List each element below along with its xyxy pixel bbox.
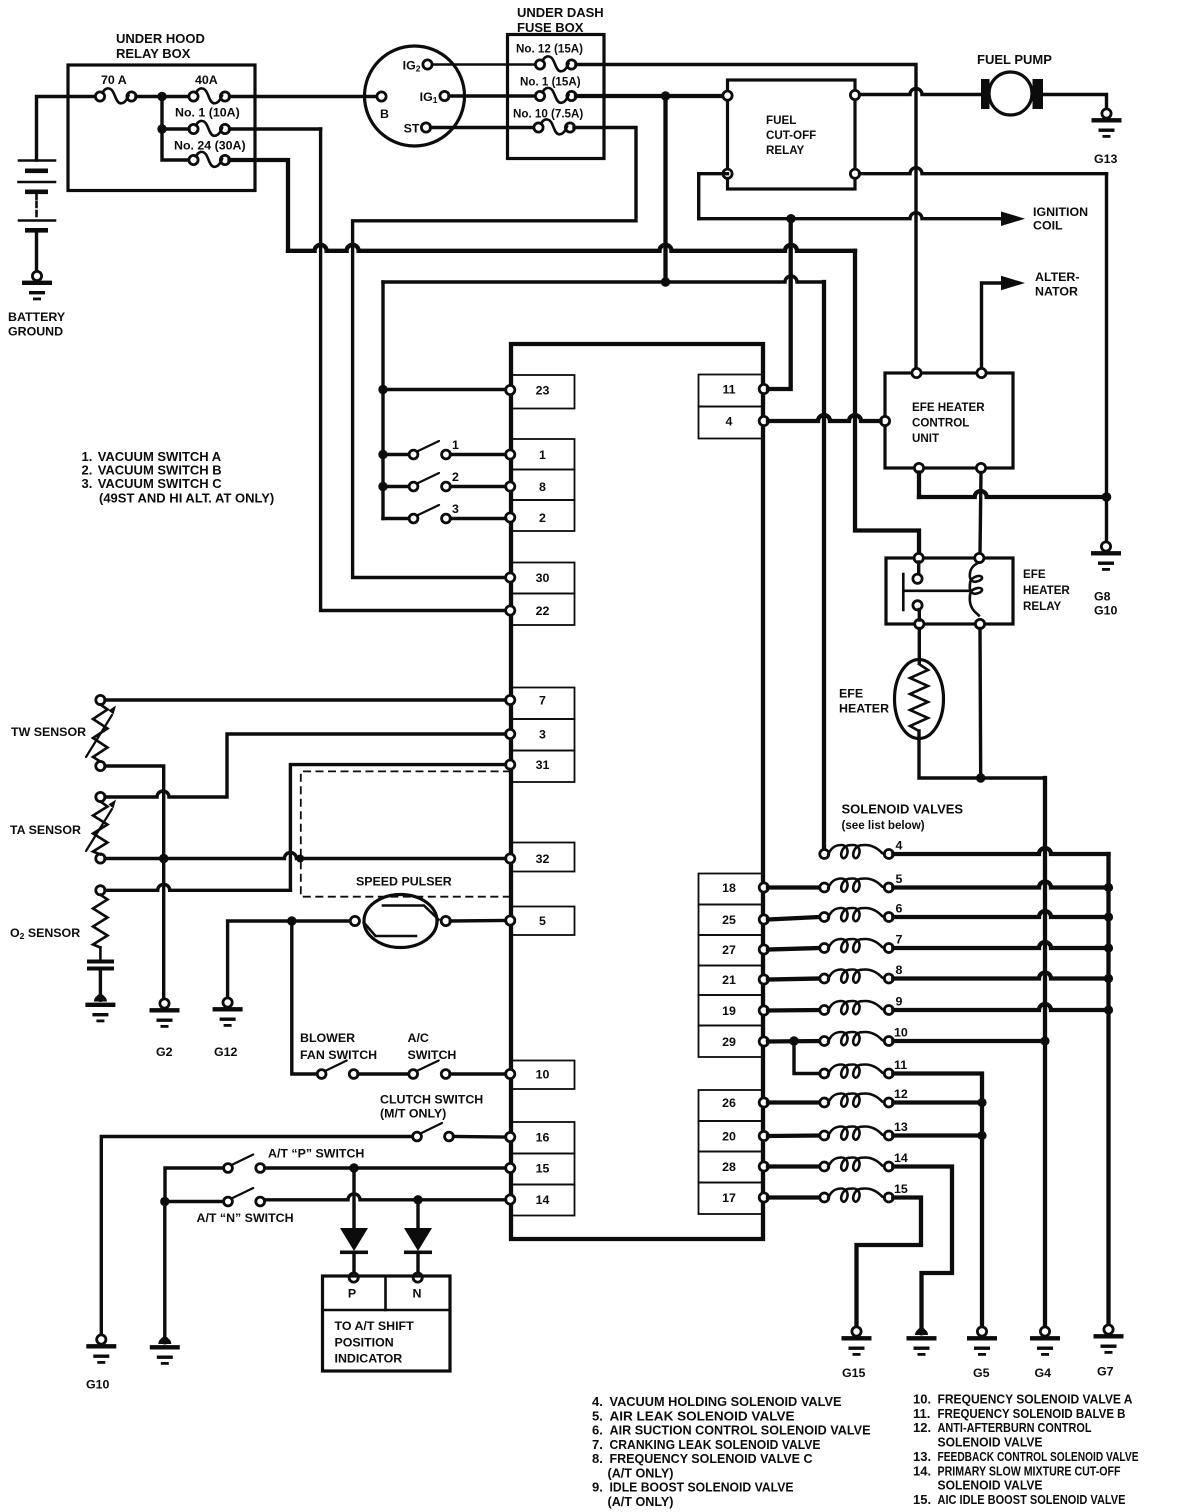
node junction solenoid 10 bus — [1040, 1036, 1049, 1045]
svg-text:9: 9 — [896, 995, 903, 1009]
solenoid valve coil 8 — [820, 970, 894, 984]
svg-text:(A/T ONLY): (A/T ONLY) — [608, 1465, 674, 1480]
wire vacuum switch 3 to cell 2 — [451, 517, 506, 520]
ECU pin cell 10 — [506, 1061, 575, 1090]
svg-text:7: 7 — [896, 933, 903, 947]
node junction ignition coil line / cell 11 riser — [786, 214, 795, 223]
svg-text:4: 4 — [726, 415, 733, 429]
svg-text:CRANKING LEAK SOLENOID VALVE: CRANKING LEAK SOLENOID VALVE — [610, 1437, 821, 1452]
svg-text:19: 19 — [722, 1004, 736, 1018]
svg-text:3: 3 — [452, 502, 459, 516]
node junction solenoid 7 bus — [1104, 943, 1113, 952]
wire to vacuum switch 1 — [383, 453, 409, 456]
svg-text:1: 1 — [539, 448, 546, 462]
ECU pin cell 25 — [699, 905, 769, 936]
ECU pin cell 5 — [506, 907, 575, 936]
svg-text:5: 5 — [896, 872, 903, 886]
svg-text:(see list below): (see list below) — [842, 819, 925, 832]
svg-text:UNIT: UNIT — [912, 432, 939, 445]
wire No.1 junction down to solenoid feed line — [663, 96, 667, 282]
O2 sensor — [87, 886, 114, 995]
node junction sensor ground bus — [287, 916, 296, 925]
dashed option boundary — [301, 771, 511, 896]
solenoid valve coil 5 — [820, 879, 894, 893]
svg-text:EFE: EFE — [839, 687, 863, 701]
ground G15 — [842, 1327, 872, 1356]
svg-text:(A/T ONLY): (A/T ONLY) — [608, 1494, 674, 1509]
terminal EFE relay bottom left — [915, 619, 924, 628]
node junction solenoid 6 bus — [1104, 912, 1113, 921]
svg-text:BATTERY: BATTERY — [8, 310, 66, 324]
terminal EFE relay top left — [914, 553, 923, 562]
wire cell 28 to solenoid 14 — [768, 1164, 820, 1168]
wire 40A output to ignition switch B — [230, 95, 378, 98]
wire A/C switch to cell 10 — [450, 1072, 506, 1075]
svg-text:15: 15 — [536, 1162, 550, 1176]
svg-text:A/C: A/C — [408, 1031, 429, 1045]
svg-text:7: 7 — [539, 694, 546, 708]
wire junction to fuse No.1 10A — [162, 127, 189, 130]
svg-text:8.: 8. — [592, 1451, 603, 1466]
svg-text:PRIMARY SLOW MIXTURE CUT-OFF: PRIMARY SLOW MIXTURE CUT-OFF — [938, 1463, 1121, 1478]
solenoid valve coil 6 — [820, 908, 894, 922]
ECU pin cell 3 — [506, 719, 575, 751]
wire right bus to ground G7 — [1106, 854, 1110, 1325]
switch clutch switch — [413, 1123, 454, 1141]
svg-text:FUEL PUMP: FUEL PUMP — [977, 52, 1052, 67]
wire cell 17 to solenoid 15 — [768, 1195, 820, 1199]
svg-text:FAN SWITCH: FAN SWITCH — [300, 1048, 377, 1062]
svg-text:8: 8 — [539, 480, 546, 494]
wire cell 3 to TA sensor — [105, 734, 506, 797]
wire No.1 10A down to cell 22 — [321, 129, 505, 611]
svg-text:SOLENOID VALVE: SOLENOID VALVE — [938, 1478, 1043, 1493]
svg-text:UNDER HOOD: UNDER HOOD — [116, 31, 205, 46]
svg-text:3: 3 — [539, 728, 546, 742]
svg-text:9.: 9. — [592, 1480, 603, 1495]
svg-text:17: 17 — [722, 1191, 736, 1205]
solenoid valve coil 10 — [820, 1032, 894, 1046]
solenoid valve coil 11 — [820, 1065, 894, 1079]
terminal IG2 — [423, 60, 432, 69]
arrow to alternator — [1001, 276, 1025, 291]
svg-text:28: 28 — [722, 1160, 736, 1174]
svg-text:COIL: COIL — [1033, 219, 1063, 233]
svg-text:HEATER: HEATER — [1023, 584, 1070, 597]
wire N switch to cell 14 — [265, 1194, 506, 1200]
svg-text:8: 8 — [896, 963, 903, 977]
svg-text:5: 5 — [539, 914, 546, 928]
fuse 40A — [189, 88, 230, 103]
wire solenoid 15 to ground G15 — [857, 1198, 922, 1328]
terminal relay right bottom — [850, 169, 859, 178]
wire right bus down to junction — [1105, 174, 1108, 497]
wire alternator feed — [982, 283, 1003, 368]
ECU pin cell 26 — [699, 1090, 769, 1121]
speed pulser — [350, 895, 450, 948]
svg-text:ANTI-AFTERBURN CONTROL: ANTI-AFTERBURN CONTROL — [938, 1420, 1092, 1435]
svg-text:P: P — [348, 1287, 356, 1301]
wire main feed line No.24 to EFE relay — [288, 245, 855, 251]
switch vacuum switch 2 — [409, 473, 450, 491]
ECU pin cell 29 — [699, 1026, 769, 1058]
ECU pin cell 23 — [506, 375, 575, 409]
solenoid valve coil 13 — [820, 1127, 894, 1141]
solenoid valve coil 9 — [820, 1001, 894, 1015]
ECU pin cell 17 — [699, 1183, 769, 1215]
TA sensor — [86, 792, 116, 863]
solenoid valve coil 4 — [820, 845, 894, 859]
ground G12 riser — [228, 921, 287, 998]
fuse No.12 (15A) — [535, 56, 576, 71]
svg-text:7.: 7. — [592, 1437, 603, 1452]
svg-text:(M/T ONLY): (M/T ONLY) — [380, 1107, 446, 1121]
terminal relay left bottom — [723, 169, 732, 178]
svg-text:FREQUENCY SOLENOID VALVE C: FREQUENCY SOLENOID VALVE C — [610, 1451, 814, 1466]
svg-text:N: N — [413, 1287, 422, 1301]
wire solenoid 11 to G5 bus — [893, 1074, 982, 1328]
svg-text:4: 4 — [896, 839, 903, 853]
terminal relay left top — [723, 91, 732, 100]
solenoid valve coil 7 — [820, 939, 894, 953]
svg-text:A/T “P” SWITCH: A/T “P” SWITCH — [268, 1147, 364, 1161]
svg-text:No. 1 (15A): No. 1 (15A) — [520, 76, 581, 89]
wire No.1 15A output to fuel cut-off relay — [576, 94, 723, 98]
svg-text:15: 15 — [894, 1182, 908, 1196]
wire ST to fuse No.10 — [431, 126, 536, 129]
svg-text:POSITION: POSITION — [335, 1336, 394, 1350]
svg-text:TA SENSOR: TA SENSOR — [10, 823, 81, 837]
switch A/T N switch — [224, 1188, 265, 1206]
terminal ST — [421, 123, 430, 132]
wire solenoid 14 to ground — [893, 1167, 952, 1328]
ECU pin cell 20 — [699, 1121, 769, 1152]
svg-text:11.: 11. — [913, 1406, 930, 1421]
wire speed pulser to cell 5 — [450, 919, 505, 923]
svg-text:G5: G5 — [973, 1366, 990, 1380]
wire main feed down to EFE heater relay — [855, 251, 919, 554]
svg-text:TO A/T SHIFT: TO A/T SHIFT — [335, 1319, 415, 1333]
switch A/T P switch — [224, 1155, 265, 1173]
wire cell 26 to solenoid 12 — [768, 1100, 820, 1104]
svg-text:6: 6 — [896, 902, 903, 916]
ECU pin cell 18 — [699, 874, 769, 905]
switch vacuum switch 1 — [409, 441, 450, 459]
svg-text:IGNITION: IGNITION — [1033, 205, 1088, 219]
terminal EFE relay top right — [975, 553, 984, 562]
ground G12 — [213, 998, 243, 1027]
wire No.24 output down to main feed — [230, 160, 289, 251]
svg-text:IDLE BOOST SOLENOID VALVE: IDLE BOOST SOLENOID VALVE — [610, 1480, 794, 1495]
svg-text:NATOR: NATOR — [1035, 285, 1078, 299]
wire solenoid 7 to right bus — [893, 942, 1108, 948]
wire IG1 to fuse No.1 15A — [449, 94, 536, 97]
A/T shift position indicator box — [323, 1276, 451, 1371]
svg-text:CONTROL: CONTROL — [912, 417, 969, 430]
fuse No.24 (30A) — [189, 152, 230, 167]
wire control unit bottom right to EFE relay coil — [980, 473, 981, 555]
ECU pin cell 8 — [506, 470, 575, 501]
TW sensor — [86, 695, 116, 770]
ECU pin cell 1 — [506, 439, 575, 470]
svg-text:AIR SUCTION CONTROL SOLENOID V: AIR SUCTION CONTROL SOLENOID VALVE — [610, 1423, 871, 1438]
wire ignition coil feed — [699, 213, 1002, 219]
svg-text:VACUUM HOLDING SOLENOID VALVE: VACUUM HOLDING SOLENOID VALVE — [610, 1394, 842, 1409]
ground G4 — [1030, 1327, 1060, 1356]
wire junction to ground G8 G10 — [1105, 497, 1108, 542]
wire vacuum feed to cell 23 — [383, 388, 506, 391]
svg-text:AIR LEAK SOLENOID VALVE: AIR LEAK SOLENOID VALVE — [610, 1408, 795, 1423]
wire solenoid 13 to G5 bus — [893, 1133, 982, 1137]
svg-text:RELAY: RELAY — [766, 144, 804, 157]
svg-text:B: B — [380, 107, 389, 121]
node junction TA wire / dashed boundary — [296, 855, 304, 863]
wire junction to speed pulser — [292, 919, 351, 922]
svg-text:3.: 3. — [82, 476, 93, 491]
wire cell 21 to solenoid 8 — [768, 979, 820, 980]
svg-text:G15: G15 — [842, 1366, 866, 1380]
wire blower to A/C switch — [358, 1072, 409, 1075]
wire control unit to ground bus — [919, 491, 1107, 497]
ECU pin cell 7 — [506, 688, 575, 720]
node junction N feed — [160, 1197, 169, 1206]
node junction solenoid 9 bus — [1104, 1005, 1113, 1014]
fuse No.1 (15A) — [535, 88, 576, 103]
svg-text:ST: ST — [404, 122, 420, 136]
svg-text:10: 10 — [894, 1026, 908, 1040]
wire to vacuum switch 3 — [383, 517, 409, 520]
ECU pin cell 4 — [699, 407, 769, 439]
svg-text:(49ST AND HI ALT. AT ONLY): (49ST AND HI ALT. AT ONLY) — [99, 491, 274, 506]
wire junction down to blower fan switch — [292, 921, 317, 1074]
svg-text:2: 2 — [452, 470, 459, 484]
svg-text:4.: 4. — [592, 1394, 603, 1409]
wire cell 25 to solenoid 6 — [768, 917, 820, 920]
wire cell 27 to solenoid 7 — [768, 948, 820, 950]
fuse 70A — [95, 88, 136, 103]
terminal control unit bottom right — [976, 463, 985, 472]
svg-text:CLUTCH SWITCH: CLUTCH SWITCH — [380, 1093, 483, 1107]
node junction solenoid 13 bus — [977, 1131, 986, 1140]
ECU pin cell 15 — [506, 1154, 575, 1185]
fuel cut-off relay — [728, 80, 856, 189]
svg-text:6.: 6. — [592, 1423, 603, 1438]
svg-text:G10: G10 — [1094, 604, 1118, 618]
wire clutch switch to ground G10 — [101, 1137, 412, 1336]
wire junction down to fuse No.24 — [162, 129, 189, 160]
wire solenoid 4 to right bus — [893, 848, 1108, 854]
ECU pin cell 32 — [506, 843, 575, 872]
node junction TA wire / G2 riser — [159, 854, 168, 863]
wire control unit bottom left drop — [917, 473, 921, 498]
wire solenoid feed down to solenoid row 4 — [822, 282, 826, 850]
node junction cell 29 branch — [789, 1036, 798, 1045]
ground G2 — [150, 999, 180, 1028]
svg-text:12: 12 — [894, 1087, 908, 1101]
wire No.10 output down and across — [353, 128, 636, 578]
svg-text:21: 21 — [722, 973, 736, 987]
node junction vacuum switch 2 — [378, 482, 387, 491]
svg-text:10: 10 — [536, 1068, 550, 1082]
svg-text:EFE: EFE — [1023, 568, 1046, 581]
svg-text:FREQUENCY SOLENOID BALVE B: FREQUENCY SOLENOID BALVE B — [938, 1406, 1126, 1421]
svg-text:1: 1 — [452, 438, 459, 452]
wire A/T P switch feed — [165, 1168, 224, 1202]
svg-text:FREQUENCY SOLENOID VALVE A: FREQUENCY SOLENOID VALVE A — [938, 1392, 1134, 1407]
ECU connector box outline — [511, 344, 763, 1239]
node junction No.1 10A — [157, 124, 166, 133]
solenoid valve coil 14 — [820, 1158, 894, 1172]
wire solenoid 6 to right bus — [893, 911, 1108, 917]
ECU pin cell 11 — [699, 375, 769, 407]
ground G13 — [1092, 109, 1122, 138]
svg-text:G10: G10 — [86, 1378, 110, 1392]
node junction 70A/40A — [157, 92, 166, 101]
ground solenoid 14 ground — [907, 1328, 937, 1356]
wire N feed to N switch — [165, 1200, 224, 1203]
ECU pin cell 16 — [506, 1122, 575, 1154]
fuse No.1 (10A) — [189, 121, 230, 136]
wire N feed to ground — [163, 1202, 166, 1337]
wire TA sensor bottom to cell 32 — [105, 853, 506, 859]
switch A/C switch — [409, 1061, 450, 1079]
wire No.12 output to EFE control unit — [576, 65, 916, 369]
ground G5 — [967, 1327, 997, 1356]
svg-text:SPEED PULSER: SPEED PULSER — [356, 875, 452, 889]
svg-text:VACUUM SWITCH C: VACUUM SWITCH C — [98, 476, 223, 491]
svg-text:14.: 14. — [913, 1463, 931, 1478]
wire O2 sensor to cell 31 riser — [105, 884, 290, 890]
wire solenoid 12 to G5 bus — [893, 1100, 982, 1104]
svg-text:G12: G12 — [214, 1045, 238, 1059]
node junction vacuum switch 1 — [378, 450, 387, 459]
svg-text:RELAY: RELAY — [1023, 600, 1061, 613]
terminal IG1 — [440, 91, 449, 100]
solenoid valve coil 15 — [820, 1189, 894, 1203]
svg-text:HEATER: HEATER — [839, 702, 889, 716]
svg-text:SWITCH: SWITCH — [408, 1048, 457, 1062]
diode N — [404, 1200, 432, 1282]
svg-text:G4: G4 — [1035, 1366, 1052, 1380]
wire solenoid 8 to right bus — [893, 973, 1108, 979]
svg-text:AIC IDLE BOOST SOLENOID VALVE: AIC IDLE BOOST SOLENOID VALVE — [938, 1492, 1126, 1507]
ground A/T switch ground — [150, 1337, 180, 1365]
svg-text:BLOWER: BLOWER — [300, 1031, 355, 1045]
ECU pin cell 14 — [506, 1185, 575, 1216]
svg-text:ALTER-: ALTER- — [1035, 270, 1080, 284]
ground O2 sensor ground — [85, 994, 115, 1022]
svg-text:23: 23 — [536, 384, 550, 398]
svg-text:29: 29 — [722, 1035, 736, 1049]
fuel pump — [981, 72, 1043, 115]
svg-text:25: 25 — [722, 913, 736, 927]
ECU pin cell 28 — [699, 1152, 769, 1183]
wire relay bottom-right to G8/G10 ground bus — [860, 168, 1107, 174]
svg-text:30: 30 — [536, 571, 550, 585]
svg-text:11: 11 — [894, 1058, 907, 1072]
battery — [19, 161, 56, 272]
svg-text:FEEDBACK CONTROL SOLENOID VALV: FEEDBACK CONTROL SOLENOID VALVE — [938, 1449, 1139, 1464]
svg-text:GROUND: GROUND — [8, 325, 63, 339]
wire 70A to 40A with junction — [136, 95, 191, 98]
svg-text:INDICATOR: INDICATOR — [335, 1352, 403, 1366]
svg-text:26: 26 — [722, 1096, 736, 1110]
ground G7 — [1094, 1325, 1124, 1354]
node junction cell 23 feed — [378, 385, 387, 394]
wire EFE relay right to junction — [978, 629, 982, 779]
svg-text:2: 2 — [539, 511, 546, 525]
node junction solenoid 12 bus — [977, 1098, 986, 1107]
svg-text:40A: 40A — [195, 73, 218, 87]
wire to vacuum switch 2 — [383, 485, 409, 488]
EFE relay coil — [970, 563, 982, 616]
wire cell 29 branch down to solenoid 11 — [794, 1041, 820, 1074]
wire P switch to cell 15 — [265, 1166, 506, 1169]
svg-text:14: 14 — [894, 1151, 908, 1165]
wire vacuum switch feed down — [381, 282, 384, 519]
node junction ground bus — [1102, 492, 1112, 502]
ECU pin cell 27 — [699, 935, 769, 966]
switch vacuum switch 3 — [409, 505, 450, 523]
wire cell 29 to solenoid 10 — [768, 1039, 820, 1044]
wire TW sensor to cell 7 — [105, 698, 506, 701]
svg-text:16: 16 — [536, 1131, 550, 1145]
wire relay bottom-left to ignition coil line — [699, 174, 728, 219]
node junction P diode — [349, 1163, 358, 1172]
svg-text:EFE HEATER: EFE HEATER — [912, 401, 985, 414]
terminal control unit top left — [912, 368, 921, 377]
wire EFE heater to ground line — [919, 731, 1045, 850]
wire IG2 to fuse No.12 — [432, 63, 536, 66]
ground battery ground — [22, 271, 52, 300]
solenoid valve coil 12 — [820, 1094, 894, 1108]
svg-text:RELAY BOX: RELAY BOX — [116, 46, 191, 61]
ground G8 G10 — [1091, 542, 1121, 571]
ignition switch — [365, 46, 465, 146]
ground G10 — [86, 1335, 116, 1364]
wire fuel pump to ground G13 — [1043, 95, 1107, 110]
ECU pin cell 19 — [699, 995, 769, 1026]
wire vacuum switch 2 to cell 8 — [451, 485, 506, 488]
svg-text:TW SENSOR: TW SENSOR — [11, 725, 86, 739]
svg-text:27: 27 — [722, 943, 736, 957]
svg-text:70 A: 70 A — [101, 73, 127, 87]
switch blower fan switch — [317, 1061, 358, 1079]
ECU pin cell 2 — [506, 500, 575, 531]
wire solenoid power feed line — [383, 276, 824, 282]
terminal B — [377, 92, 386, 101]
wire relay to fuel pump — [860, 89, 982, 95]
wire battery to fuse 70A — [37, 97, 94, 161]
node junction heater ground line — [976, 773, 985, 782]
svg-text:G2: G2 — [156, 1045, 173, 1059]
wire cell 31 riser — [290, 765, 505, 891]
wire cell 19 to solenoid 9 — [768, 1008, 820, 1013]
svg-text:14: 14 — [536, 1193, 550, 1207]
svg-text:FUSE BOX: FUSE BOX — [517, 20, 584, 35]
svg-text:12.: 12. — [913, 1420, 931, 1435]
svg-text:No. 1 (10A): No. 1 (10A) — [175, 106, 240, 120]
svg-text:13.: 13. — [913, 1449, 931, 1464]
svg-text:CUT-OFF: CUT-OFF — [766, 129, 816, 142]
fuse No.10 (7.5A) — [534, 119, 575, 134]
under dash fuse box — [508, 35, 605, 159]
node junction N diode — [413, 1195, 422, 1204]
svg-text:A/T “N” SWITCH: A/T “N” SWITCH — [197, 1211, 294, 1225]
node junction solenoid 8 bus — [1104, 974, 1113, 983]
wire cell 11 riser — [768, 223, 791, 389]
svg-text:11: 11 — [722, 383, 735, 397]
